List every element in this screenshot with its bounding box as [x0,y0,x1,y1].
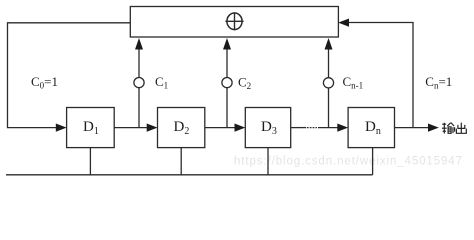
svg-text:C2: C2 [238,74,251,91]
svg-text:D2: D2 [174,119,190,137]
svg-text:D3: D3 [261,119,277,137]
svg-text:C1: C1 [155,74,168,91]
svg-text:Dn: Dn [365,119,381,137]
svg-text:Cn=1: Cn=1 [425,74,452,91]
svg-text:Cn-1: Cn-1 [343,74,364,91]
svg-text:C0=1: C0=1 [31,74,58,91]
svg-text:D1: D1 [83,119,99,137]
